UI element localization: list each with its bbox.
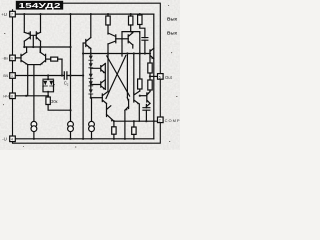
transistor VT3 (input left NPN)	[21, 52, 28, 64]
resistor R6	[148, 63, 152, 73]
wire x70.5 long vertical	[70, 14, 72, 121]
wire I1 to rail	[33, 132, 35, 139]
diode pair bottom wire	[43, 87, 54, 98]
transistor VT9 (pair right)	[128, 33, 133, 45]
wire mirror left vertical	[23, 14, 25, 47]
diode VD1 pair top wire	[43, 76, 54, 80]
pin +U (top left)	[10, 11, 16, 17]
wire VT10 emitter to rail	[124, 110, 126, 139]
wire ladder x133.8	[133, 54, 135, 94]
transistor VT4 (input right NPN)	[40, 52, 45, 64]
transistor VT6b (darlington)	[107, 104, 114, 122]
diode VD3	[89, 56, 93, 60]
wire bus y53.5	[83, 53, 150, 55]
svg-text:НЧ: НЧ	[3, 95, 9, 99]
pin -In (left, y58)	[10, 55, 16, 61]
wire chain top	[90, 49, 92, 56]
wire ladder x139.8	[139, 33, 141, 91]
diode VD6	[90, 78, 92, 81]
transistor VT12 (output PNP)	[147, 92, 150, 104]
resistor R3 (top x108)	[106, 16, 110, 25]
wire VT12 base	[140, 95, 147, 97]
label Вых.1 (outside right top)	[167, 17, 178, 23]
label Cc	[64, 81, 69, 87]
current source I2	[68, 121, 74, 127]
pin Out (right)	[150, 75, 158, 77]
wire emitter drop A	[27, 65, 29, 96]
resistor R10	[138, 79, 142, 89]
wire R6-R7 link	[149, 73, 151, 80]
wire R1 left	[46, 58, 51, 60]
svg-text:+U: +U	[1, 12, 7, 17]
resistor R9 (bottom x133.9)	[132, 127, 136, 134]
capacitor Cc	[64, 72, 67, 79]
wire chain bottom to I3	[91, 98, 93, 122]
title box 154УД2	[16, 1, 63, 10]
wire comp line y121.2	[114, 120, 158, 122]
wire R2 bottom to x70.5	[48, 105, 70, 111]
wire x91 from rail	[90, 14, 92, 37]
junction dots	[23, 13, 155, 140]
wire collector bus y47	[24, 46, 70, 48]
diode VD4	[90, 60, 92, 63]
svg-text:-Вх: -Вх	[2, 57, 8, 61]
wire x62 vertical	[61, 59, 63, 75]
svg-text:154УД2: 154УД2	[19, 1, 61, 10]
wire bracket y31.6	[122, 32, 140, 39]
label 30к	[51, 99, 58, 104]
resistor R1 (base input right)	[51, 57, 58, 61]
pin ВЧ (left, y75.5)	[10, 73, 16, 79]
wire VT3 collector	[26, 47, 28, 52]
wire C3 feed	[145, 105, 147, 122]
wire VT6 collector vertical x108	[107, 54, 109, 92]
wire R8 stubs	[113, 121, 115, 139]
svg-text:Вых: Вых	[167, 31, 178, 37]
transistor VT10 (out drive left)	[125, 98, 129, 111]
svg-text:COMP: COMP	[165, 118, 180, 123]
diode VD1 (left)	[42, 81, 44, 87]
wire ladder x127.4	[126, 54, 128, 98]
svg-text:1: 1	[11, 74, 13, 78]
transistor VT6	[102, 92, 108, 104]
wire R3 stubs	[107, 14, 109, 34]
resistor R4 (top x130.7)	[129, 16, 133, 25]
transistor VT13 (output top)	[150, 48, 154, 59]
current source I1	[31, 121, 37, 127]
svg-text:Вых: Вых	[167, 17, 178, 23]
wire R1 right	[58, 58, 62, 60]
svg-text:Out: Out	[165, 75, 173, 80]
transistor VT7a (bias stack top)	[91, 64, 106, 74]
diode VD5	[90, 68, 92, 74]
emitter arrows	[25, 32, 153, 122]
transistor VT2 (mirror right PNP)	[36, 32, 40, 41]
svg-text:9: 9	[11, 56, 13, 60]
svg-text:5: 5	[159, 75, 161, 79]
+U rail	[15, 13, 153, 15]
wire VT12 emitter	[146, 103, 150, 107]
resistor R7	[148, 80, 152, 90]
wire VT11 emitter down	[138, 104, 140, 121]
wire right loop vertical	[153, 14, 155, 139]
wire R7 bottom	[149, 90, 151, 92]
resistor R8 (bottom x113.9)	[112, 127, 116, 134]
label Вых.2 (outside right)	[167, 31, 178, 37]
capacitor C2	[142, 38, 148, 41]
transistor VT11 (out drive right)	[134, 91, 140, 104]
wire VT5 base drop x83	[83, 43, 86, 139]
wire bus to R6	[149, 57, 151, 63]
svg-text:7: 7	[11, 13, 13, 17]
wire correction y95.8	[15, 95, 48, 97]
transistor VT8 (pair left)	[108, 33, 116, 44]
wire pair base link	[116, 38, 128, 40]
transistor VT5 (VAS)	[86, 38, 91, 49]
capacitor C3	[143, 108, 150, 111]
wire mirror base link	[30, 35, 36, 47]
wire chain bottom	[90, 94, 92, 98]
pin НЧ (left, y95.8)	[10, 93, 16, 99]
wire VT3 base	[15, 57, 21, 59]
resistor R2 30k	[46, 97, 50, 105]
wire bias stack vertical	[104, 64, 106, 90]
current source I3	[89, 121, 95, 127]
wire VT4 collector	[39, 47, 41, 52]
svg-text:-U: -U	[2, 137, 7, 142]
wire center tap x122	[121, 39, 123, 56]
diode VD2 (right zener)	[53, 81, 55, 87]
transistor VT1 (mirror left PNP)	[24, 32, 30, 41]
schematic frame	[13, 3, 161, 143]
wire emitter bar	[28, 64, 41, 66]
diagonal wire A	[107, 56, 130, 96]
wire R5 stubs	[140, 14, 145, 37]
diagonal wire B	[106, 56, 126, 99]
transistor VT7b (bias stack bottom)	[91, 80, 106, 90]
-U rail	[15, 138, 153, 140]
resistor R5 (top x139.8)	[138, 15, 142, 25]
diode VD7	[90, 86, 92, 89]
wire emitter drop B to current source	[33, 65, 35, 122]
wire VT9 ties	[131, 32, 133, 49]
pin -U (bottom left)	[10, 136, 16, 142]
wire to VT6 base	[91, 97, 103, 99]
wire I3 to rail	[91, 132, 93, 139]
wire R4 stubs	[130, 14, 132, 31]
svg-text:8: 8	[11, 94, 13, 98]
wire C2 bottom	[144, 40, 146, 53]
wire R9 stubs	[133, 121, 135, 139]
wire I2 to rail	[70, 132, 72, 139]
wire correction y75.5	[15, 75, 83, 77]
svg-text:2: 2	[159, 119, 161, 123]
wire VT8 lower to bus	[107, 44, 109, 54]
svg-text:ВЧ: ВЧ	[3, 74, 8, 78]
svg-text:4: 4	[11, 137, 13, 141]
pin COMP (right)	[158, 117, 164, 123]
wire mirror right vertical	[40, 14, 42, 52]
svg-text:30к: 30к	[51, 99, 58, 104]
